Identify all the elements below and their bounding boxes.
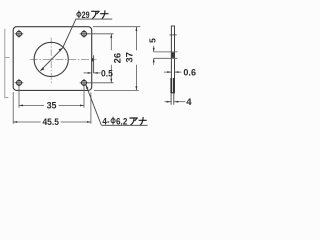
svg-text:0.5: 0.5: [101, 68, 113, 79]
dim 26: [88, 34, 114, 83]
svg-text:26: 26: [112, 53, 123, 64]
ext lines below: [170, 93, 172, 105]
svg-text:45.5: 45.5: [43, 117, 60, 128]
block1 lines: [154, 51, 178, 53]
side view bar: [171, 26, 174, 93]
katakana A (ア): [130, 118, 137, 125]
label phi29 ana: [82, 10, 90, 21]
bottom block (thick dark sides): [170, 78, 172, 93]
edge bump right-center: [92, 58, 94, 61]
hole BR: [80, 79, 89, 87]
dim 4: [165, 101, 171, 103]
plate outline (front view): [13, 27, 92, 91]
hole BL: [15, 79, 24, 87]
phi29 diameter chord with arrows: [40, 19, 112, 71]
svg-text:29: 29: [82, 10, 90, 21]
dim 35: [19, 87, 84, 108]
horizontal centerline: [30, 58, 97, 60]
svg-text:35: 35: [47, 100, 58, 111]
katakana NA (ナ): [101, 11, 109, 18]
hole TL: [15, 30, 24, 38]
dim 0.6: [164, 71, 171, 73]
dim 0.5: [84, 72, 101, 74]
svg-text:0.6: 0.6: [183, 67, 196, 78]
katakana NA (ナ): [139, 117, 146, 125]
big circle phi29: [34, 42, 68, 76]
dim 37: [93, 27, 140, 91]
leader 4-phi6.2: [86, 85, 101, 125]
svg-text:6.2: 6.2: [116, 116, 127, 127]
svg-text:4-: 4-: [102, 116, 109, 127]
cropped neighbour dimension line at left edge: [5, 29, 10, 98]
hole tick in side view: [169, 34, 176, 36]
svg-text:5: 5: [147, 38, 157, 43]
dim 45.5: [13, 92, 91, 124]
vertical centerline: [50, 38, 52, 84]
katakana A (ア): [92, 11, 100, 18]
hole TR: [80, 30, 89, 38]
svg-text:37: 37: [125, 52, 136, 63]
svg-text:4: 4: [186, 97, 192, 108]
